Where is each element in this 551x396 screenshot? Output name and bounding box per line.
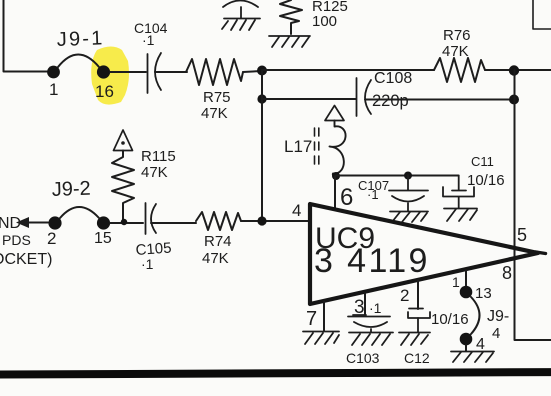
svg-text:C108: C108: [374, 70, 412, 87]
wire: [465, 345, 467, 351]
wire pin 7: [323, 301, 325, 331]
test point triangle (R115): [114, 130, 133, 151]
test point triangle (L17): [325, 106, 344, 121]
svg-text:C11: C11: [471, 154, 494, 169]
svg-text:47K: 47K: [202, 250, 229, 267]
node junction D: [509, 95, 519, 105]
svg-text:4: 4: [492, 325, 500, 342]
resistor R74: [196, 212, 241, 230]
svg-text:5: 5: [517, 225, 527, 245]
capacitor C105: [146, 203, 157, 234]
capacitor C107: [389, 175, 428, 211]
svg-text:3 4119: 3 4119: [314, 242, 430, 280]
svg-text:47K: 47K: [201, 105, 228, 122]
svg-text:7: 7: [306, 308, 317, 330]
svg-text:6: 6: [340, 184, 353, 211]
node junction A: [257, 66, 267, 76]
svg-text:J9-2: J9-2: [51, 178, 91, 201]
wire: [110, 71, 146, 73]
highlight mark (yellow): [91, 47, 129, 105]
resistor R125: [280, 0, 302, 34]
wire: [151, 222, 196, 224]
wire: [485, 69, 551, 71]
resistor R115: [112, 151, 134, 222]
capacitor C11: [443, 176, 474, 208]
svg-text:10/16: 10/16: [431, 311, 469, 328]
wire: [243, 71, 262, 72]
capacitor C103: [348, 317, 390, 333]
wire top-left input: [4, 0, 48, 72]
svg-text:OCKET): OCKET): [0, 251, 52, 268]
svg-text:J9-: J9-: [487, 308, 509, 325]
svg-text:2: 2: [400, 286, 409, 305]
wire: [155, 71, 187, 73]
op-amp U1 (UC9 34119): [310, 204, 538, 304]
wire pin 3: [364, 293, 366, 314]
svg-text:1: 1: [452, 274, 460, 290]
wire rail A: [262, 69, 434, 71]
connector J9-1 pin 16 pad: [97, 65, 110, 78]
ground (pin 7): [303, 332, 339, 345]
wire vertical feedback bus: [261, 71, 263, 221]
connector J9-1 pin 1 pad: [47, 66, 60, 79]
svg-text:2: 2: [47, 229, 56, 248]
svg-text:8: 8: [502, 263, 512, 283]
wire: [110, 222, 143, 224]
svg-text:10/16: 10/16: [467, 172, 505, 189]
svg-text:PDS: PDS: [2, 232, 31, 248]
resistor R75: [186, 59, 243, 85]
ground (top center): [222, 1, 260, 31]
svg-text:13: 13: [475, 285, 492, 302]
node junction B: [509, 65, 519, 75]
op-amp apex overshoot: [536, 252, 546, 254]
wire rail B: [262, 98, 356, 100]
node junction E: [257, 216, 266, 225]
node junction G: [404, 172, 412, 180]
connector J9-2 bridge arc: [60, 207, 99, 218]
svg-text:J9-1: J9-1: [56, 27, 104, 51]
connector J9-2 pin 15 pad: [97, 216, 110, 229]
capacitor C108: [357, 78, 372, 116]
capacitor C104: [148, 53, 162, 93]
svg-text:47K: 47K: [442, 43, 469, 60]
svg-text:C12: C12: [404, 350, 430, 366]
wire pin5 bus: [515, 70, 551, 340]
svg-text:L17: L17: [284, 137, 312, 156]
resistor R76: [434, 58, 485, 82]
box corner (adjacent sheet component): [533, 0, 551, 29]
svg-text:220p: 220p: [372, 92, 409, 110]
arrowhead: [16, 217, 29, 228]
node junction (R115 tap): [121, 219, 127, 225]
svg-text:C103: C103: [346, 350, 380, 366]
wire: [241, 220, 310, 222]
svg-text:·1: ·1: [369, 300, 382, 316]
connector J9-2 pin 2 pad: [48, 216, 61, 229]
node junction C: [257, 94, 266, 103]
svg-text:4: 4: [476, 336, 485, 353]
photo border bar: [0, 368, 551, 378]
svg-text:100: 100: [312, 13, 337, 30]
svg-text:47K: 47K: [141, 164, 168, 181]
pin 3 underline: [353, 314, 366, 316]
svg-text:R74: R74: [204, 233, 232, 250]
svg-text:R115: R115: [141, 148, 176, 165]
connector J9-4 pin 13 pad: [460, 286, 473, 299]
connector J9-4 pin 4 pad: [460, 333, 473, 346]
ground (C103): [349, 333, 393, 346]
svg-text:ND: ND: [0, 215, 21, 232]
ground (C107): [390, 212, 428, 223]
wire pin 6: [334, 176, 336, 210]
ground (J9-4): [451, 352, 494, 363]
ground (C12): [399, 333, 430, 346]
wire: [365, 99, 514, 101]
svg-text:16: 16: [95, 82, 114, 101]
wire with arrow: [27, 222, 48, 224]
wire pin 2: [417, 280, 419, 309]
connector J9-4 bridge arc: [471, 297, 480, 334]
wire: [336, 175, 459, 177]
ground (under R125): [269, 36, 310, 47]
svg-text:1: 1: [49, 80, 58, 99]
inductor L17: [330, 121, 346, 177]
wire pin 1: [465, 270, 467, 286]
svg-text:R76: R76: [443, 27, 471, 44]
node junction F: [332, 172, 340, 180]
svg-text:·1: ·1: [367, 187, 379, 202]
inductor core marks: [315, 128, 319, 164]
connector J9-1 bridge arc: [58, 55, 99, 68]
ground (C11): [444, 209, 477, 222]
svg-text:R75: R75: [203, 89, 231, 106]
capacitor C12: [408, 309, 430, 333]
svg-text:·1: ·1: [141, 256, 154, 272]
svg-text:·1: ·1: [142, 32, 155, 48]
svg-text:4: 4: [292, 201, 301, 220]
svg-text:15: 15: [94, 230, 112, 247]
